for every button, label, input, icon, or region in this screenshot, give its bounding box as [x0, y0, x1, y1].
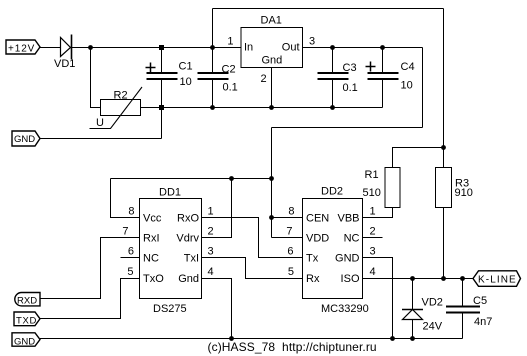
wire 5V riser left down to DD2 VDD: [271, 128, 273, 238]
node C1 top: [159, 45, 164, 50]
wire DA1 Out pin 3: [303, 47, 423, 49]
wire DD1 Vdrv pin 2 riser: [202, 179, 232, 238]
node R1 R3 top: [441, 145, 446, 150]
capacitor C3 top lead: [332, 48, 334, 73]
node diode output: [88, 45, 93, 50]
svg-text:TxI: TxI: [184, 253, 199, 265]
node 5V rail right: [269, 176, 274, 181]
wire DD1 Vcc pin 8: [111, 179, 140, 218]
node C4 top: [380, 45, 385, 50]
wire GND tag to ground bus: [40, 138, 162, 140]
wire R1 top to +12V riser: [393, 148, 444, 168]
svg-text:C4: C4: [401, 61, 415, 73]
svg-text:GND: GND: [335, 253, 360, 265]
capacitor C1 plates: [147, 72, 178, 74]
node DD2 gnd rail: [390, 336, 395, 341]
svg-text:DA1: DA1: [261, 15, 282, 27]
svg-text:7: 7: [286, 226, 292, 238]
svg-text:Vdrv: Vdrv: [176, 233, 199, 245]
svg-text:10: 10: [401, 80, 413, 92]
varistor R2 body: [101, 100, 141, 116]
svg-text:MC33290: MC33290: [321, 303, 369, 315]
svg-text:24V: 24V: [423, 321, 443, 333]
node C2 top: [210, 45, 215, 50]
node CEN tap: [269, 215, 274, 220]
capacitor C5 plates: [446, 306, 480, 308]
svg-text:1: 1: [208, 206, 214, 218]
tag GND upper flag: [12, 131, 40, 146]
svg-text:C5: C5: [473, 295, 487, 307]
node C5 top: [460, 276, 465, 281]
wire R2 right / ground bus y=107: [140, 107, 383, 109]
svg-text:TXD: TXD: [16, 316, 37, 327]
chip DD2 box: [303, 199, 363, 299]
tag +12V flag: [6, 40, 40, 54]
svg-text:VBB: VBB: [337, 213, 359, 225]
svg-text:(c)HASS_78 http://chiptuner.r: (c)HASS_78 http://chiptuner.ru: [208, 340, 377, 354]
svg-text:510: 510: [363, 187, 381, 199]
svg-text:U: U: [96, 117, 104, 129]
wire ground rail bottom: [40, 338, 463, 340]
capacitor C2 bottom lead: [212, 80, 214, 108]
chip DD1 box: [140, 199, 202, 299]
wire DD1 TxI pin 3 to DD2 Rx pin 5: [202, 258, 303, 279]
svg-text:K-LINE: K-LINE: [478, 275, 517, 286]
svg-text:ISO: ISO: [341, 273, 360, 285]
polarity plus of C1: [146, 67, 156, 69]
node R3 bottom: [441, 276, 446, 281]
zener VD2 cathode bar: [402, 309, 423, 311]
capacitor C1 top lead: [161, 48, 163, 73]
svg-text:Vcc: Vcc: [143, 213, 162, 225]
wire DD2 CEN pin 8 stub: [272, 217, 303, 219]
wire +12V down to R2 left: [91, 48, 101, 108]
svg-text:3: 3: [208, 246, 214, 258]
svg-text:10: 10: [180, 76, 192, 88]
capacitor C2 riser and top lead: [212, 9, 214, 73]
wire DD2 ISO pin 4 to K-LINE tag: [363, 278, 474, 280]
diode VD1 cathode bar: [71, 35, 73, 60]
wire +12V riser to R1 R3: [443, 9, 445, 168]
polarity plus of C4: [366, 66, 376, 68]
svg-text:+12V: +12V: [8, 44, 35, 55]
varistor R2 diagonal stroke: [90, 87, 143, 129]
svg-text:2: 2: [261, 73, 267, 85]
wire 5V riser right: [422, 48, 424, 128]
wire DD1 Gnd pin 4 to ground rail: [202, 279, 232, 339]
svg-text:R1: R1: [365, 169, 379, 181]
resistor R3 box: [436, 168, 452, 208]
svg-text:C1: C1: [179, 61, 193, 73]
svg-text:RxI: RxI: [143, 233, 160, 245]
svg-text:1: 1: [227, 36, 233, 48]
svg-text:8: 8: [288, 206, 294, 218]
node C3 bottom ground: [330, 105, 335, 110]
node C3 top: [330, 45, 335, 50]
svg-text:TxO: TxO: [143, 273, 164, 285]
svg-text:NC: NC: [344, 233, 360, 245]
svg-text:GND: GND: [14, 337, 35, 348]
svg-text:CEN: CEN: [306, 213, 329, 225]
svg-text:2: 2: [370, 226, 376, 238]
zener VD2 bottom lead: [412, 320, 414, 339]
svg-text:6: 6: [128, 246, 134, 258]
capacitor C5 bottom lead: [462, 314, 464, 339]
svg-text:Out: Out: [282, 42, 300, 54]
svg-text:5: 5: [288, 266, 294, 278]
wire ground link down to GND tag: [161, 108, 163, 139]
svg-text:0.1: 0.1: [343, 82, 358, 94]
wire DD2 VDD pin 7 stub: [272, 237, 303, 239]
wire R3 bottom to K-LINE: [443, 208, 445, 279]
svg-text:In: In: [244, 42, 253, 54]
svg-text:R2: R2: [114, 90, 128, 102]
tag TXD flag: [14, 312, 40, 326]
wire DD2 NC pin 2 stub: [363, 237, 383, 239]
svg-text:4n7: 4n7: [474, 316, 492, 328]
svg-text:6: 6: [287, 246, 293, 258]
capacitor C4 plates: [368, 72, 399, 74]
svg-text:Tx: Tx: [306, 253, 319, 265]
svg-text:0.1: 0.1: [223, 82, 238, 94]
diode VD1 triangle: [61, 38, 71, 57]
node Vdrv on 5V rail: [229, 176, 234, 181]
node DD1 gnd rail: [229, 336, 234, 341]
tag GND lower flag: [12, 333, 40, 346]
wire DD2 VBB pin 1 to R1: [363, 208, 393, 218]
tag K-LINE flag: [473, 271, 521, 287]
resistor R1 box: [385, 168, 400, 208]
svg-text:C3: C3: [343, 62, 357, 74]
svg-text:Gnd: Gnd: [262, 55, 283, 67]
capacitor C2 plates: [198, 72, 229, 74]
svg-text:2: 2: [208, 226, 214, 238]
svg-text:910: 910: [455, 187, 473, 199]
wire 5V horizontal: [272, 127, 423, 129]
zener VD2 top lead: [412, 279, 414, 310]
svg-text:7: 7: [122, 226, 128, 238]
svg-text:4: 4: [208, 266, 214, 278]
svg-text:DD1: DD1: [159, 187, 181, 199]
svg-text:DD2: DD2: [321, 186, 343, 198]
svg-text:5: 5: [127, 266, 133, 278]
node C2 bottom ground: [210, 105, 215, 110]
capacitor C1 bottom lead: [161, 80, 163, 108]
svg-text:3: 3: [370, 246, 376, 258]
node C1 bottom ground: [159, 105, 164, 110]
svg-text:VDD: VDD: [306, 233, 329, 245]
svg-text:3: 3: [309, 36, 315, 48]
zener VD2 triangle: [403, 310, 423, 320]
wire DD1 TxO pin 5 to TXD: [40, 279, 140, 319]
svg-text:C2: C2: [222, 64, 236, 76]
svg-text:RxO: RxO: [177, 213, 199, 225]
capacitor C5 top lead: [462, 279, 464, 307]
wire DD1 RxO pin 1 to DD2 Tx pin 6: [202, 218, 303, 258]
svg-text:Rx: Rx: [306, 273, 320, 285]
wire DD2 GND pin 3 to ground rail: [363, 258, 393, 339]
svg-text:1: 1: [370, 206, 376, 218]
svg-text:4: 4: [370, 266, 376, 278]
capacitor C4 bottom lead: [382, 80, 384, 108]
wire DD1 RxI pin 7 to RXD: [40, 238, 140, 299]
capacitor C4 top lead: [382, 48, 384, 73]
tag RXD flag: [15, 293, 40, 306]
wire top +12V link over DA1: [213, 8, 444, 10]
svg-text:NC: NC: [143, 253, 159, 265]
capacitor C3 bottom lead: [332, 80, 334, 108]
svg-text:Gnd: Gnd: [178, 273, 199, 285]
node DA1 gnd pin ground: [269, 105, 274, 110]
wire VD1 cathode to DA1 In pin 1: [71, 47, 241, 49]
node VD2 bottom rail: [410, 336, 415, 341]
svg-text:VD1: VD1: [54, 58, 75, 70]
wire 5V rail to DD1: [111, 178, 272, 180]
svg-text:RXD: RXD: [17, 296, 37, 307]
svg-text:VD2: VD2: [422, 297, 443, 309]
wire DA1 Gnd pin 2: [271, 68, 273, 108]
wire +12V tag to VD1 anode: [39, 47, 61, 49]
svg-text:8: 8: [128, 206, 134, 218]
svg-text:DS275: DS275: [153, 303, 187, 315]
capacitor C3 plates: [318, 72, 349, 74]
svg-text:GND: GND: [14, 134, 35, 145]
wire DD1 NC pin 6 stub: [121, 257, 140, 259]
regulator DA1 box: [241, 28, 303, 68]
node VD2 top: [410, 276, 415, 281]
